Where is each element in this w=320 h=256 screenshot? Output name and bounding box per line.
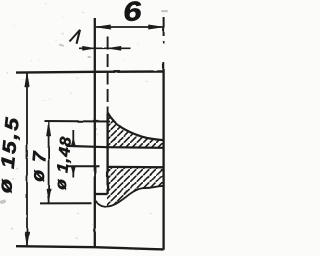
- dim line 6: [95, 26, 164, 28]
- hatch upper section area: [108, 113, 164, 148]
- step edge: [95, 193, 108, 195]
- part top face / ext line o15.5 top: [16, 72, 164, 73]
- break wavy line C2: [96, 186, 164, 207]
- svg-text:6: 6: [122, 0, 144, 28]
- scan smudges: [55, 39, 57, 42]
- dim line 1: [79, 47, 131, 49]
- label 1: [70, 30, 81, 42]
- hidden edge V2 dashed: [107, 37, 109, 115]
- slot top edge + ext line o1.48 top: [67, 146, 164, 148]
- dim line o15.5: [26, 72, 28, 246]
- right ext tick for dim 6: [163, 17, 165, 36]
- ext line o7 top: [44, 120, 110, 123]
- svg-text:ø 1,48: ø 1,48: [52, 135, 75, 190]
- slot bottom edge: [108, 166, 164, 169]
- dim line o7: [48, 122, 50, 204]
- ext line o7 bottom: [40, 202, 92, 204]
- part bottom face / ext line o15.5 bottom: [16, 246, 164, 249]
- ext line o1.48 bottom: [66, 165, 99, 167]
- svg-text:ø 15,5: ø 15,5: [0, 115, 24, 194]
- groove curve C1: [108, 113, 164, 141]
- hatch lower section area: [107, 167, 164, 207]
- dim stems o1.48 with outward arrows: [72, 130, 74, 146]
- svg-text:ø 7: ø 7: [27, 149, 50, 182]
- part right face V3: [163, 41, 165, 44]
- section edge V2 solid: [106, 114, 108, 194]
- part left face V1: [94, 18, 96, 247]
